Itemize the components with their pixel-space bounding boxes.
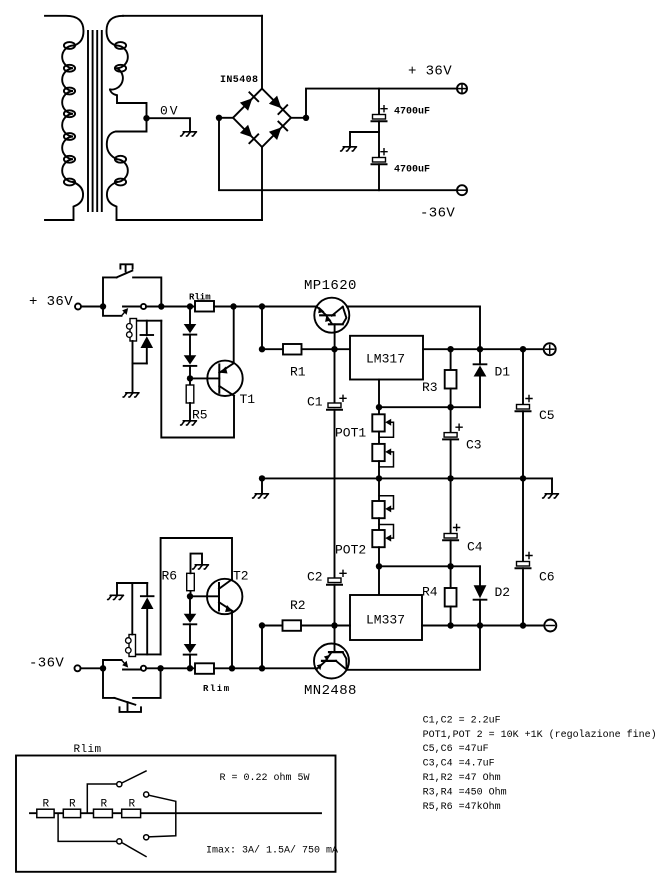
wire ADJ2 to LM337 [378, 566, 380, 595]
relay coil K2 [117, 583, 161, 657]
node MP base / C1 [331, 346, 337, 352]
switch bypass lower [58, 813, 146, 856]
relay coil K1 [127, 319, 162, 393]
wire input to relay node bottom [81, 667, 104, 669]
node R4 bottom [447, 622, 453, 628]
wire base to T1 [190, 377, 219, 379]
svg-text:R4: R4 [422, 585, 438, 600]
resistor Rlim top [195, 301, 214, 312]
svg-text:C2: C2 [307, 570, 323, 585]
wire bridge left to -rail [219, 118, 457, 190]
node R3 top [447, 346, 453, 352]
diode D2 [474, 566, 487, 625]
node ADJ1 [376, 404, 382, 410]
resistor R d [122, 809, 141, 817]
node C5 top [520, 346, 526, 352]
node T1 base [187, 375, 193, 381]
svg-text:LM337: LM337 [366, 613, 405, 628]
Rlim detail box [16, 756, 336, 872]
terminal -36V raw [457, 185, 467, 195]
svg-text:R: R [101, 799, 108, 811]
svg-text:POT2: POT2 [335, 543, 366, 558]
wire bridge right to +rail [306, 89, 457, 118]
svg-text:Rlim: Rlim [203, 684, 231, 694]
svg-text:R: R [69, 799, 76, 811]
wire base to T2 [190, 595, 219, 597]
svg-text:R1,R2 =47 Ohm: R1,R2 =47 Ohm [423, 772, 501, 784]
capacitor 4700uF upper [372, 106, 388, 132]
diode chain top D3 [184, 307, 197, 335]
bridge diode top-right [269, 96, 287, 114]
terminal output plus [544, 343, 556, 355]
resistor R1 [283, 344, 302, 355]
wire mid caps to ground [350, 132, 379, 146]
wire transformer top to bridge [123, 15, 262, 17]
bridge diode bottom-left [240, 125, 258, 143]
node R3 bottom [447, 404, 453, 410]
value list [423, 715, 657, 813]
wire R1 branch [261, 307, 263, 350]
ground between caps [341, 147, 357, 151]
svg-text:MP1620: MP1620 [304, 278, 357, 294]
svg-text:+ 36V: + 36V [408, 64, 452, 80]
svg-text:R5: R5 [192, 408, 208, 423]
node rail left [259, 475, 265, 481]
svg-text:MN2488: MN2488 [304, 683, 357, 699]
wire C1 to C2 crossing ground rail [334, 410, 336, 578]
node center tap [143, 115, 149, 121]
resistor R3 [445, 349, 457, 407]
regulator LM317 [350, 336, 423, 380]
node B4 [229, 665, 235, 671]
wire node to Rlim [161, 306, 195, 308]
svg-text:R3,R4 =450 Ohm: R3,R4 =450 Ohm [423, 787, 507, 799]
wire rail right ground stub [551, 478, 553, 493]
node bridge left [216, 115, 222, 121]
node R1 left [259, 346, 265, 352]
bridge diode top-left [240, 92, 258, 110]
svg-text:R1: R1 [290, 365, 306, 380]
svg-text:R2: R2 [290, 598, 306, 613]
svg-text:R5,R6 =47kOhm: R5,R6 =47kOhm [423, 801, 501, 813]
svg-text:0V: 0V [160, 104, 180, 119]
svg-text:C5,C6 =47uF: C5,C6 =47uF [423, 744, 489, 755]
ground relay coil K1 [123, 393, 139, 397]
node B5 [259, 665, 265, 671]
node rail C3C4 [447, 475, 453, 481]
node A4 [230, 303, 236, 309]
node T2 base [187, 593, 193, 599]
resistor R4 [445, 566, 457, 625]
wire LM337 out line [422, 625, 544, 627]
flyback diode relay K2 [132, 583, 153, 654]
relay contact K1 [103, 304, 146, 316]
wire ADJ1 line [379, 406, 480, 408]
svg-text:C3,C4 =4.7uF: C3,C4 =4.7uF [423, 759, 495, 770]
ground R6 [193, 565, 209, 569]
pushbutton S2 [103, 668, 161, 712]
svg-text:T2: T2 [233, 569, 249, 584]
wire contact to node B2 [146, 667, 161, 669]
resistor R c [94, 809, 113, 817]
transistor MP1620 [314, 298, 349, 350]
node D2 bottom [477, 622, 483, 628]
svg-text:LM317: LM317 [366, 352, 405, 367]
svg-text:D2: D2 [495, 585, 511, 600]
wire T1 collector to relay coil [161, 321, 234, 438]
wire rail left ground stub [261, 478, 263, 493]
resistor R a [37, 809, 54, 817]
capacitor C5 [516, 349, 533, 478]
svg-text:T1: T1 [240, 392, 256, 407]
svg-text:R: R [43, 799, 50, 811]
svg-text:-36V: -36V [420, 206, 455, 222]
diode chain bottom D5 [184, 596, 197, 624]
transformer primary winding [45, 16, 84, 220]
capacitor 4700uF lower [372, 132, 388, 190]
svg-text:IN5408: IN5408 [220, 75, 258, 86]
resistor R b [63, 809, 80, 817]
potentiometer POT2 lower [372, 525, 393, 567]
bridge rectifier IN5408 diamond [233, 89, 291, 147]
wire to R1 [262, 348, 283, 350]
switch bypass upper [87, 771, 146, 813]
resistor Rlim bottom [195, 663, 214, 674]
wire LM317 out [423, 348, 544, 350]
node R4 top [447, 563, 453, 569]
node B2 [157, 665, 163, 671]
bridge diode bottom-right [269, 122, 287, 140]
svg-text:R6: R6 [162, 569, 178, 584]
terminal -36V input [75, 665, 81, 671]
svg-text:C4: C4 [467, 540, 483, 555]
flyback diode relay K1 [133, 321, 154, 364]
relay contact K2 [103, 660, 146, 671]
potentiometer POT2 upper [372, 478, 393, 530]
terminal +36V input [75, 304, 81, 310]
terminal +36V raw [457, 84, 467, 94]
svg-text:C5: C5 [539, 408, 555, 423]
svg-text:R: R [129, 799, 136, 811]
switch selector right [144, 792, 176, 840]
node B1 [100, 665, 106, 671]
transformer secondary winding [107, 16, 263, 220]
potentiometer POT1 upper [372, 407, 393, 444]
ground R5 [181, 421, 197, 425]
svg-text:4700uF: 4700uF [394, 165, 430, 176]
wire MN collector to out [347, 626, 480, 670]
wire Rlim to MN emitter rail [214, 667, 316, 669]
svg-text:POT1: POT1 [335, 426, 366, 441]
svg-text:Rlim: Rlim [189, 293, 211, 303]
wire LM337 in line [262, 625, 350, 627]
wire R2 branch [261, 626, 263, 669]
wire input to relay node [81, 306, 103, 308]
wire contact to node [146, 306, 161, 308]
resistor R2 [283, 620, 302, 631]
svg-text:C3: C3 [466, 438, 482, 453]
ground rail middle [262, 477, 552, 479]
svg-text:Rlim: Rlim [74, 744, 102, 756]
pushbutton S1 [103, 264, 161, 306]
node R2 left [259, 622, 265, 628]
node rail pot [376, 475, 382, 481]
node A3 [187, 303, 193, 309]
node A1 [100, 303, 106, 309]
capacitor C3 [443, 407, 462, 478]
wire bridge bottom to transformer bottom [261, 147, 263, 220]
node rail C5C6 [520, 475, 526, 481]
transistor T1 [207, 307, 242, 396]
svg-text:Imax: 3A/ 1.5A/ 750 mA: Imax: 3A/ 1.5A/ 750 mA [206, 845, 338, 857]
wire R1 to LM317 [302, 348, 351, 350]
potentiometer POT1 lower [372, 444, 393, 479]
svg-text:-36V: -36V [29, 656, 64, 672]
node ADJ2 [376, 563, 382, 569]
wire MP collector rail [347, 307, 480, 350]
ground rail left [253, 494, 269, 498]
svg-text:R = 0.22 ohm 5W: R = 0.22 ohm 5W [220, 772, 310, 784]
svg-text:C1: C1 [307, 395, 323, 410]
regulator LM337 [350, 595, 422, 640]
diode D1 [474, 349, 487, 407]
ground 0V [181, 132, 197, 136]
node bridge right [303, 115, 309, 121]
ground relay coil K2 [108, 583, 124, 600]
wire T2 collector to relay coil [161, 538, 232, 654]
capacitor C6 [516, 478, 533, 625]
svg-text:R3: R3 [422, 380, 438, 395]
resistor R6 [187, 554, 202, 597]
svg-text:POT1,POT 2 = 10K +1K (regolazi: POT1,POT 2 = 10K +1K (regolazione fine) [423, 729, 657, 741]
node C6 bottom [520, 622, 526, 628]
node B3 [187, 665, 193, 671]
svg-text:C6: C6 [539, 570, 555, 585]
wire rail to MP1620 [262, 306, 317, 308]
svg-text:C1,C2 = 2.2uF: C1,C2 = 2.2uF [423, 715, 501, 726]
wire node to Rlim bottom [161, 667, 195, 669]
svg-text:D1: D1 [495, 365, 511, 380]
transformer core [88, 31, 102, 211]
capacitor C1 [327, 349, 346, 410]
resistor R5 [186, 378, 194, 420]
node C2 bottom [331, 622, 337, 628]
capacitor C2 [327, 570, 346, 625]
wire center tap to ground [147, 118, 191, 131]
transistor MN2488 [314, 626, 349, 679]
diode chain bottom D6 [184, 624, 197, 668]
terminal output minus [544, 620, 556, 632]
node A2 [158, 303, 164, 309]
wire LM317 adj [378, 380, 380, 408]
svg-text:+ 36V: + 36V [29, 294, 73, 310]
node D1 top [477, 346, 483, 352]
wire filter cap chain [378, 89, 380, 115]
capacitor C4 [443, 478, 460, 566]
svg-text:4700uF: 4700uF [394, 107, 430, 118]
node A5 [259, 303, 265, 309]
wire Rlim to node [214, 306, 262, 308]
diode chain top D4 [184, 335, 197, 379]
ground rail right [543, 494, 559, 498]
wire ADJ2 line [379, 565, 480, 567]
transistor T2 [207, 579, 242, 669]
wire Rlim main line [30, 812, 321, 814]
